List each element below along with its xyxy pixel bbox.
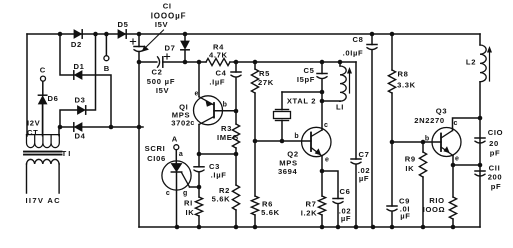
- wire C2 to R4: [163, 61, 206, 63]
- wire rail to C8: [371, 34, 373, 45]
- svg-text:IMEG: IMEG: [217, 133, 239, 142]
- wire emitter node to R10: [452, 165, 454, 197]
- wire D4 row left: [60, 126, 74, 128]
- wire R7 to ground: [321, 215, 323, 227]
- svg-text:µF: µF: [359, 174, 369, 183]
- svg-text:e: e: [195, 90, 199, 97]
- capacitor C8 .01uF: [367, 44, 377, 46]
- wire Q2 emitter down: [321, 156, 323, 171]
- wire C6 to ground: [337, 204, 339, 227]
- capacitor C4 .1uF: [231, 71, 241, 73]
- wire C4 to R3: [235, 78, 237, 125]
- svg-text:CII: CII: [489, 164, 501, 173]
- wire secondary right lead: [58, 127, 60, 136]
- svg-text:200: 200: [488, 173, 503, 182]
- svg-text:2N2270: 2N2270: [414, 116, 445, 125]
- svg-text:D1: D1: [73, 62, 84, 71]
- svg-text:CT: CT: [27, 128, 38, 137]
- junction: [58, 32, 63, 37]
- svg-text:D7: D7: [164, 44, 175, 53]
- svg-text:27K: 27K: [258, 78, 274, 87]
- svg-text:D2: D2: [71, 40, 82, 49]
- svg-text:I.2K: I.2K: [301, 209, 318, 218]
- svg-text:5.6K: 5.6K: [212, 195, 231, 204]
- svg-text:C8: C8: [352, 35, 363, 44]
- svg-text:C7: C7: [358, 150, 369, 159]
- svg-text:RI: RI: [184, 199, 193, 208]
- svg-text:b: b: [223, 102, 227, 109]
- capacitor C1 1000uF: [134, 46, 144, 48]
- wire node to C9: [391, 142, 393, 206]
- svg-text:I5V: I5V: [155, 20, 169, 29]
- wire rail to R5: [254, 62, 256, 69]
- svg-text:I2V: I2V: [27, 119, 41, 128]
- svg-text:D5: D5: [117, 20, 128, 29]
- wire R10 to ground: [452, 219, 454, 227]
- svg-text:MPS: MPS: [279, 158, 297, 167]
- wire R8 to Q3 base node: [391, 93, 393, 142]
- svg-text:b: b: [294, 133, 298, 140]
- wire rail to D7: [184, 34, 186, 42]
- wire R9 to ground: [422, 177, 424, 227]
- wire node to crystal: [281, 92, 283, 110]
- svg-text:B: B: [104, 64, 110, 73]
- svg-text:I5pF: I5pF: [297, 75, 315, 84]
- wire R2 to ground: [235, 210, 237, 227]
- capacitor C9 .01uF: [387, 205, 397, 207]
- svg-text:C6: C6: [339, 187, 350, 196]
- svg-text:c: c: [454, 120, 458, 127]
- wire C5 node to collector node: [321, 92, 323, 101]
- svg-text:D4: D4: [74, 132, 85, 141]
- junction: [390, 225, 395, 230]
- junction: [371, 225, 376, 230]
- wire Q3 collector to right rail: [453, 118, 481, 131]
- junction: [253, 225, 258, 230]
- junction: [197, 152, 202, 157]
- capacitor C7 .02uF: [351, 158, 361, 160]
- wire emitter node to C6: [322, 171, 338, 199]
- svg-text:b: b: [425, 135, 429, 142]
- wire Q3 emitter to C10/C11 node: [453, 156, 480, 166]
- capacitor C10 20pF: [475, 137, 485, 139]
- junction: [320, 169, 325, 174]
- wire rail down to D3 cathode: [86, 34, 96, 110]
- wire C7 to ground: [355, 165, 357, 228]
- resistor R5 27K: [251, 69, 258, 93]
- wire crystal to base: [281, 121, 283, 142]
- wire Q1 base to C4/R3 node: [214, 110, 236, 112]
- svg-text:RIO: RIO: [429, 196, 444, 205]
- wire C5 to node: [321, 79, 323, 92]
- svg-text:A: A: [172, 135, 178, 144]
- svg-text:II7V AC: II7V AC: [26, 196, 61, 205]
- junction: [183, 32, 188, 37]
- svg-text:I5V: I5V: [156, 86, 170, 95]
- diode D2: [74, 30, 82, 38]
- L2 tuning arrow: [489, 50, 491, 81]
- wire second rail to Q1 emitter: [198, 62, 200, 97]
- svg-text:c: c: [324, 122, 328, 129]
- svg-text:20: 20: [489, 139, 499, 148]
- wire node to R1: [198, 187, 200, 197]
- terminal C: [41, 76, 46, 81]
- wire C1 to ground rail (left riser): [138, 52, 140, 228]
- wire Q1 collector to R3/R2 node: [199, 153, 236, 155]
- junction: [93, 32, 98, 37]
- svg-text:TI: TI: [62, 149, 73, 158]
- junction: [234, 60, 239, 65]
- junction: [137, 125, 142, 130]
- wire right rail: [479, 34, 481, 227]
- leader arrow to C1: [145, 30, 164, 49]
- diode D5: [118, 30, 126, 38]
- terminal B: [104, 56, 109, 61]
- junction: [253, 139, 258, 144]
- diode D7: [181, 41, 189, 49]
- junction: [175, 225, 180, 230]
- wire R6 to ground: [254, 215, 256, 227]
- svg-text:R9: R9: [405, 154, 416, 163]
- svg-text:µF: µF: [400, 211, 410, 220]
- junction: [421, 225, 426, 230]
- junction: [478, 163, 483, 168]
- junction: [370, 32, 375, 37]
- svg-text:g: g: [183, 190, 187, 197]
- wire C3 to gate node: [198, 172, 200, 187]
- svg-text:XTAL 2: XTAL 2: [287, 97, 316, 106]
- svg-text:C4: C4: [215, 69, 226, 78]
- svg-text:R5: R5: [259, 69, 270, 78]
- wire D1 anode down to D4 row: [82, 75, 111, 127]
- svg-text:D3: D3: [74, 96, 85, 105]
- junction: [234, 225, 239, 230]
- junction: [234, 152, 239, 157]
- wire rail to L1: [339, 62, 341, 66]
- wire D6 to center tap: [42, 104, 44, 136]
- capacitor C5 15pF: [317, 73, 327, 75]
- svg-text:pF: pF: [490, 149, 501, 158]
- capacitor C11 200pF: [475, 170, 485, 172]
- wire B stub: [105, 34, 107, 56]
- svg-text:5.6K: 5.6K: [261, 208, 280, 217]
- inductor L2: [480, 45, 486, 82]
- junction: [183, 60, 188, 65]
- wire rail to R8: [391, 34, 393, 70]
- wire center tap to D6: [42, 104, 44, 136]
- wire C9 to ground: [391, 212, 393, 228]
- transformer T1 primary winding: [27, 159, 60, 164]
- svg-text:IK: IK: [405, 164, 414, 173]
- wire R3 to R2: [235, 148, 237, 185]
- svg-text:C5: C5: [303, 66, 314, 75]
- capacitor C2 500uF: [158, 57, 160, 67]
- junction: [253, 60, 258, 65]
- svg-text:IOOΩ: IOOΩ: [423, 205, 446, 214]
- svg-text:Q2: Q2: [287, 149, 298, 158]
- transistor Q1 MPS3702: [194, 96, 223, 125]
- svg-text:c: c: [190, 120, 194, 127]
- wire crystal top to C5 node: [282, 91, 322, 93]
- junction: [197, 185, 202, 190]
- transistor Q3 2N2270: [432, 128, 461, 157]
- wire node to R6: [254, 141, 256, 196]
- junction: [338, 60, 343, 65]
- junction: [320, 90, 325, 95]
- junction: [336, 225, 341, 230]
- wire bottom ground rail: [139, 226, 480, 228]
- transistor Q2 MPS3694: [302, 127, 331, 156]
- resistor R3 1MEG: [232, 124, 239, 148]
- wire R4 to C7 corner: [234, 61, 356, 63]
- L1 tuning arrow: [349, 71, 351, 93]
- junction: [137, 60, 142, 65]
- wire C terminal to D6: [42, 81, 44, 96]
- svg-text:R8: R8: [397, 70, 408, 79]
- junction: [478, 116, 483, 121]
- terminal A anode: [174, 145, 179, 150]
- wire D4 row right: [82, 126, 143, 128]
- junction: [320, 225, 325, 230]
- wire top +V rail: [27, 33, 480, 35]
- junction: [354, 225, 359, 230]
- diode D1: [75, 71, 83, 79]
- svg-text:IK: IK: [186, 208, 195, 217]
- resistor R8 3.3K: [388, 70, 395, 93]
- wire Q2 collector up: [321, 101, 323, 130]
- wire rail to C1: [138, 34, 140, 47]
- svg-text:R7: R7: [305, 200, 316, 209]
- svg-text:c: c: [166, 190, 170, 197]
- svg-text:500 µF: 500 µF: [147, 77, 176, 86]
- svg-text:3702: 3702: [171, 119, 191, 128]
- svg-text:.IµF: .IµF: [209, 77, 225, 86]
- svg-text:µF: µF: [341, 214, 351, 223]
- junction: [320, 60, 325, 65]
- wire SCR cathode to ground: [176, 172, 178, 227]
- svg-text:e: e: [325, 156, 329, 163]
- transformer T1 core: [24, 151, 62, 153]
- junction: [280, 139, 285, 144]
- svg-text:CI: CI: [163, 1, 172, 10]
- wire L1 bottom to node: [322, 100, 340, 102]
- svg-text:LI: LI: [336, 103, 344, 112]
- wire left drop to transformer: [26, 34, 28, 136]
- svg-text:e: e: [455, 155, 459, 162]
- svg-text:C2: C2: [151, 68, 162, 77]
- wire base line to R9: [422, 142, 424, 152]
- wire SCR gate to node: [190, 186, 200, 188]
- wire R1 to ground: [198, 216, 200, 227]
- svg-text:CIO: CIO: [488, 128, 503, 137]
- wire Q1 collector down: [198, 125, 200, 155]
- junction: [109, 125, 114, 130]
- junction: [390, 140, 395, 145]
- diode D4: [75, 123, 83, 131]
- svg-text:.IµF: .IµF: [211, 171, 227, 180]
- wire Q3 base line: [392, 141, 441, 143]
- SCR1 C106: [162, 161, 191, 190]
- wire rail to C4: [235, 62, 237, 72]
- resistor R4 4.7K: [206, 58, 230, 65]
- diode D3: [78, 106, 86, 114]
- junction: [197, 60, 202, 65]
- wire R5 to base node: [254, 93, 256, 141]
- wire rail to D1 cathode: [60, 34, 74, 75]
- svg-text:C: C: [40, 65, 46, 74]
- diode D6: [38, 96, 46, 104]
- junction: [421, 140, 426, 145]
- svg-text:3694: 3694: [278, 167, 298, 176]
- svg-text:L2: L2: [466, 58, 476, 67]
- wire A to SCR anode: [175, 150, 177, 164]
- svg-text:D6: D6: [47, 94, 58, 103]
- wire D3 anode to left node: [60, 110, 78, 127]
- svg-text:4.7K: 4.7K: [209, 51, 228, 60]
- svg-text:CI06: CI06: [147, 154, 166, 163]
- wire corner down to C7: [355, 62, 357, 159]
- svg-text:R3: R3: [221, 124, 232, 133]
- svg-text:a: a: [179, 151, 183, 158]
- junction: [451, 225, 456, 230]
- junction: [320, 99, 325, 104]
- wire D7 to second rail: [184, 51, 186, 63]
- svg-text:Q3: Q3: [436, 107, 447, 116]
- junction: [234, 109, 239, 114]
- wire C1 node to C2: [139, 61, 157, 63]
- junction: [197, 225, 202, 230]
- junction: [104, 32, 109, 37]
- junction: [451, 163, 456, 168]
- svg-text:3.3K: 3.3K: [397, 81, 416, 90]
- svg-text:pF: pF: [491, 182, 502, 191]
- wire C8 to ground: [371, 50, 373, 227]
- svg-text:SCRI: SCRI: [145, 144, 166, 153]
- resistor R2 5.6K: [232, 185, 239, 210]
- junction: [58, 125, 63, 130]
- wire rail to C5: [321, 62, 323, 74]
- svg-text:.0IµF: .0IµF: [343, 49, 364, 58]
- wire emitter node to R7: [321, 171, 323, 196]
- junction: [137, 32, 142, 37]
- wire Q2 base line: [255, 140, 311, 142]
- wire to C3: [198, 154, 200, 167]
- junction: [390, 32, 395, 37]
- transformer T1 secondary winding 12V CT: [27, 135, 60, 148]
